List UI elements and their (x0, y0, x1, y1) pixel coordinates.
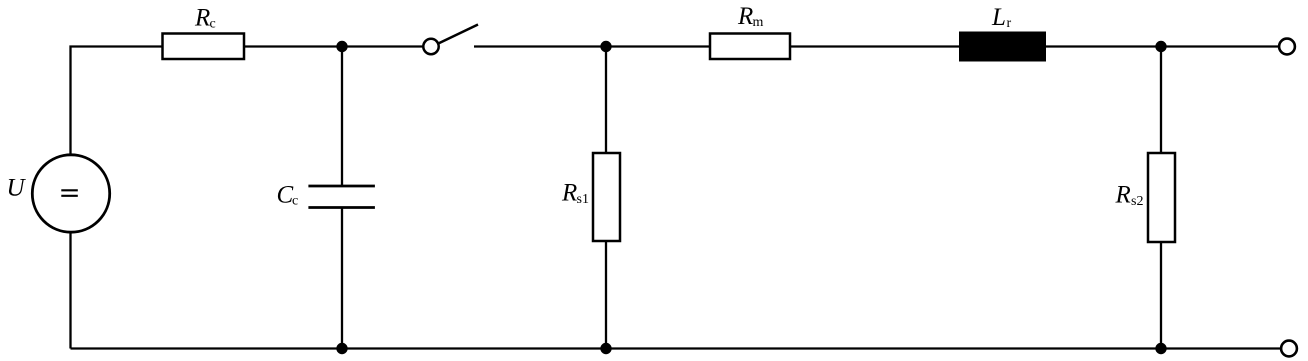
wire: switch throw to Rs1 top junction (474, 45, 606, 47)
wire: Cc branch upper segment (341, 47, 343, 187)
junction dot: Cc bottom node (336, 343, 347, 354)
svg-text:L: L (991, 4, 1006, 31)
label Rs2 (1115, 181, 1144, 209)
wire: Rs2 junction to top output terminal (1161, 45, 1279, 47)
wire: Rs1 branch lower segment (605, 241, 607, 349)
label Rm (737, 3, 764, 30)
junction dot: Rs2 bottom node (1155, 343, 1166, 354)
wire: source bottom to bottom rail (69, 232, 71, 349)
wire: Rc right to Cc top junction (244, 45, 342, 47)
wire: Rs1 branch upper segment (605, 47, 607, 154)
switch S (pole circle and open blade) (423, 25, 478, 55)
svg-text:R: R (194, 5, 210, 32)
resistor Rm (710, 34, 790, 60)
capacitor Cc (two plates) (308, 186, 375, 208)
svg-text:r: r (1007, 16, 1012, 31)
resistor Rs1 (593, 153, 620, 241)
wire: Cc branch lower segment (341, 208, 343, 349)
svg-text:C: C (277, 181, 294, 208)
wire: Rs2 branch upper segment (1160, 47, 1162, 154)
svg-text:R: R (561, 179, 577, 206)
wire: Cc junction to switch pole (342, 45, 423, 47)
wire: Rs1 junction to Rm left (606, 45, 710, 47)
svg-text:R: R (1115, 181, 1131, 208)
junction dot: Cc top node (336, 41, 347, 52)
wire: top-left corner from source top to Rc (71, 47, 163, 156)
inductor Lr (filled bar) (960, 33, 1045, 61)
label Lr (991, 4, 1012, 31)
svg-text:s1: s1 (577, 192, 589, 207)
label Rc (194, 5, 216, 32)
label Cc (277, 181, 299, 208)
wire: Rs2 branch lower segment (1160, 242, 1162, 349)
terminal: bottom-right output (1281, 341, 1297, 357)
resistor Rc (163, 34, 245, 60)
junction dot: Rs1 bottom node (600, 343, 611, 354)
svg-text:c: c (210, 17, 216, 32)
label Rs1 (561, 179, 589, 207)
junction dot: Rs2 top node (1155, 41, 1166, 52)
wire: bottom rail to bottom output terminal (71, 347, 1282, 349)
svg-text:s2: s2 (1131, 194, 1143, 209)
wire: Lr right to Rs2 top junction (1045, 45, 1161, 47)
voltage source U (DC source circle) (32, 155, 109, 232)
svg-text:R: R (737, 3, 753, 30)
svg-text:m: m (753, 15, 764, 30)
resistor Rs2 (1148, 153, 1175, 242)
terminal: top-right output (1279, 39, 1295, 55)
wire: Rm right to Lr left (790, 45, 960, 47)
junction dot: Rs1 top node (600, 41, 611, 52)
svg-text:U: U (7, 175, 27, 202)
svg-text:c: c (292, 194, 298, 209)
